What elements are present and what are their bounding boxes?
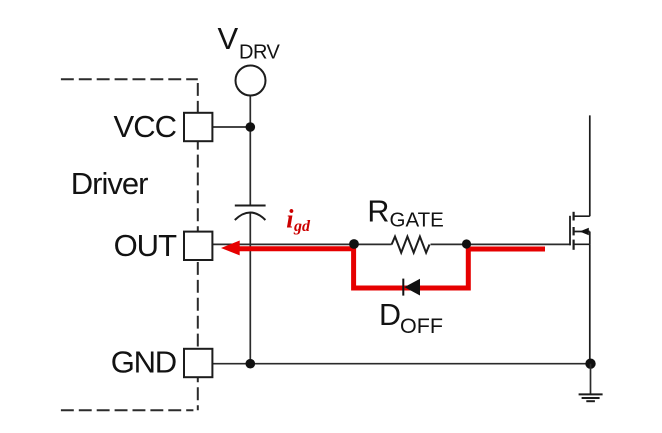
wire VDRV circle to capacitor: [249, 96, 251, 206]
wire VCC pin to supply node: [210, 126, 250, 128]
wire capacitor to GND rail: [249, 212, 251, 363]
svg-text:GND: GND: [111, 344, 176, 379]
resistor R_GATE: [392, 237, 430, 253]
diode D_OFF triangle: [404, 279, 420, 296]
svg-text:VCC: VCC: [114, 109, 177, 144]
wire OUT pin to MOSFET gate (left of resistor): [210, 243, 392, 245]
red arrowhead at OUT: [221, 241, 240, 256]
driver box right edge (dashed): [197, 83, 199, 410]
svg-text:DRV: DRV: [239, 42, 281, 64]
svg-text:D: D: [379, 298, 401, 332]
pin square VCC: [184, 113, 212, 141]
driver box top edge (dashed): [61, 78, 198, 80]
diode D_OFF cathode bar: [402, 279, 404, 296]
MOSFET source wire down: [589, 244, 591, 363]
MOSFET source connection: [574, 243, 590, 245]
junction dot right of resistor: [462, 239, 471, 248]
MOSFET channel bar top: [572, 212, 574, 221]
MOSFET Q gate bar: [569, 216, 571, 246]
GND rail wire: [210, 363, 591, 365]
wire junction to ground symbol: [590, 364, 592, 394]
svg-text:V: V: [218, 21, 239, 56]
MOSFET body arrow: [580, 228, 589, 235]
svg-text:R: R: [367, 195, 389, 229]
ground symbol: [579, 394, 603, 401]
capacitor C (bypass): [235, 206, 266, 221]
svg-text:GATE: GATE: [390, 209, 444, 232]
V_DRV source circle: [236, 66, 266, 96]
red current path i_gd: [238, 249, 546, 288]
wire resistor to MOSFET gate (right of resistor): [431, 243, 571, 245]
MOSFET channel bar middle: [572, 227, 574, 235]
svg-text:OUT: OUT: [114, 228, 178, 263]
MOSFET drain connection: [574, 215, 590, 217]
MOSFET channel bar bottom: [572, 240, 574, 250]
MOSFET body line: [574, 231, 590, 233]
svg-text:Driver: Driver: [71, 166, 148, 201]
driver box bottom edge (dashed): [61, 409, 194, 411]
junction dot GND rail at MOSFET source: [585, 359, 595, 369]
junction dot GND rail at cap branch: [246, 359, 256, 369]
pin square OUT: [184, 232, 212, 260]
svg-text:gd: gd: [293, 218, 311, 235]
junction dot left of resistor: [349, 239, 359, 249]
MOSFET drain wire up: [589, 115, 591, 216]
pin square GND: [184, 349, 212, 377]
junction dot at VCC supply node: [246, 122, 256, 132]
MOSFET body-source vertical: [589, 232, 591, 245]
svg-text:OFF: OFF: [400, 314, 443, 338]
